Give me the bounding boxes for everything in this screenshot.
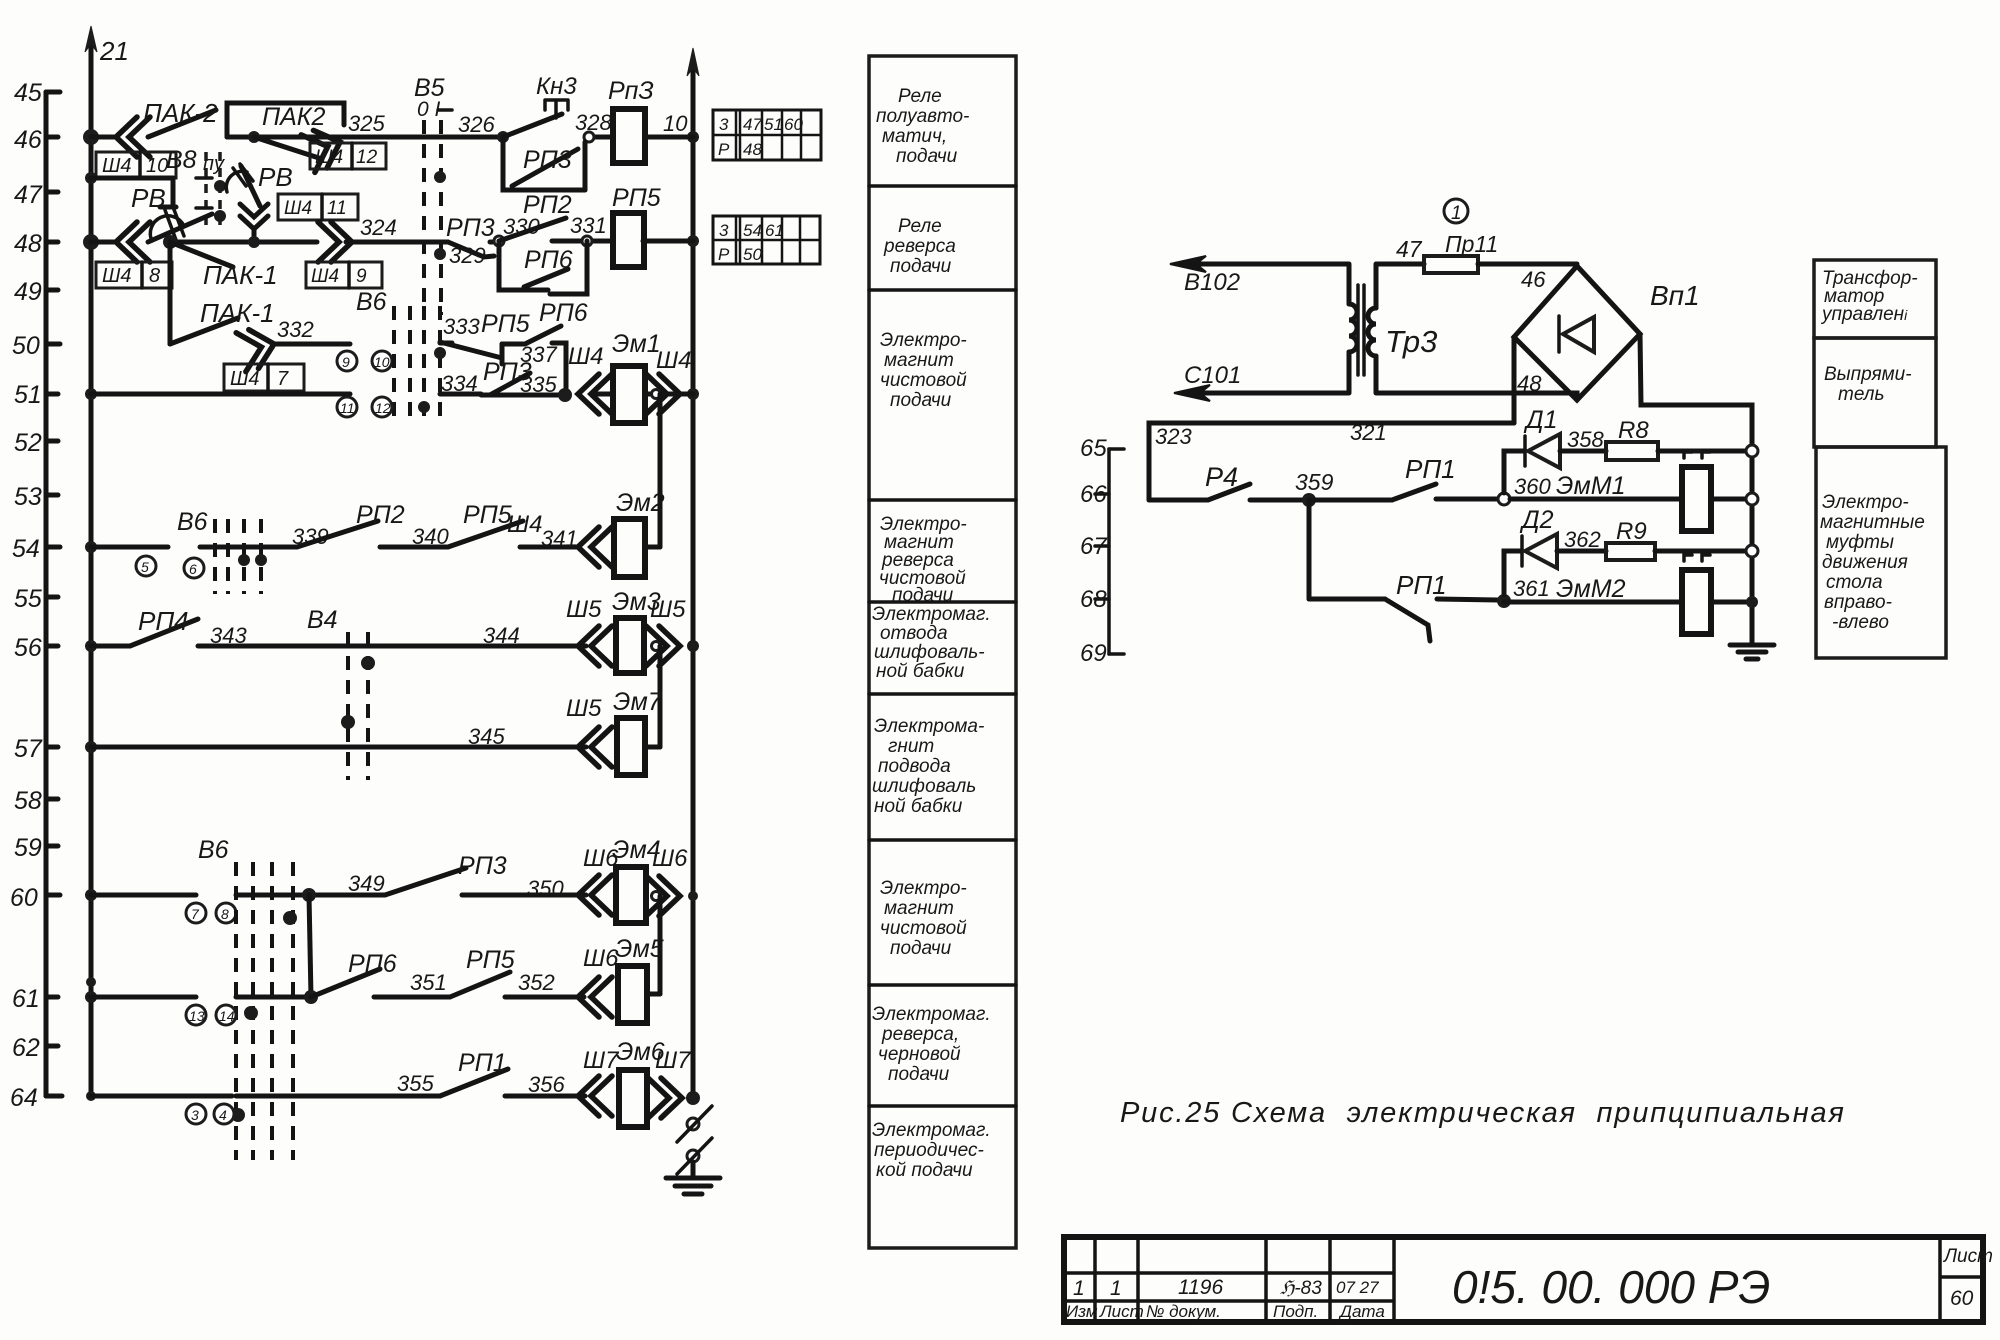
svg-text:329: 329 <box>449 243 486 268</box>
svg-text:321: 321 <box>1350 420 1387 445</box>
transformer Тр3 <box>1349 264 1437 393</box>
numbers bracket 65-69 <box>1080 435 1124 667</box>
svg-text:Реле: Реле <box>898 216 942 237</box>
svg-text:61: 61 <box>765 221 784 240</box>
svg-text:3: 3 <box>191 1107 199 1123</box>
svg-text:21: 21 <box>99 36 129 66</box>
svg-text:46: 46 <box>1521 267 1546 292</box>
time relay contact РВ upper right <box>226 162 358 242</box>
svg-text:4: 4 <box>219 1107 227 1123</box>
svg-text:Р: Р <box>718 140 730 159</box>
svg-text:шлифоваль-: шлифоваль- <box>874 642 985 663</box>
svg-text:магнит: магнит <box>884 350 954 371</box>
relay coil РП5 row48 <box>612 184 661 267</box>
svg-text:11: 11 <box>327 198 347 219</box>
svg-text:Дата: Дата <box>1338 1302 1385 1321</box>
relay contact РП4 row56 <box>91 606 198 646</box>
svg-text:реверса,: реверса, <box>881 1024 959 1045</box>
svg-text:В6: В6 <box>177 508 208 536</box>
terminal table 2 <box>713 216 820 264</box>
svg-text:1: 1 <box>1110 1277 1122 1300</box>
svg-text:60: 60 <box>10 884 38 912</box>
svg-text:47: 47 <box>743 115 762 134</box>
electromagnet coil Эм7 <box>613 688 663 775</box>
svg-text:358: 358 <box>1567 427 1604 452</box>
relay contact РП3 self-hold loop row46 <box>503 137 585 190</box>
wire row 54 <box>91 545 579 550</box>
svg-text:6: 6 <box>189 561 197 577</box>
svg-text:Ш7: Ш7 <box>655 1047 692 1074</box>
switch В6 dashed linkage row54 <box>177 508 267 594</box>
svg-text:Пр11: Пр11 <box>1445 231 1498 257</box>
svg-text:54: 54 <box>743 221 762 240</box>
switch В6 dashed linkage rows50-51 <box>356 288 446 418</box>
svg-text:С101: С101 <box>1184 362 1241 389</box>
wire Эм2 riser <box>658 394 663 547</box>
svg-text:349: 349 <box>348 871 385 896</box>
switch В6 dashed linkage rows60-64 <box>198 836 297 1160</box>
svg-text:подвода: подвода <box>878 756 951 777</box>
wire node359 down <box>1307 500 1312 599</box>
right bus junction dots <box>686 131 700 1105</box>
svg-text:12: 12 <box>375 400 391 416</box>
svg-text:10: 10 <box>374 354 390 370</box>
svg-text:48: 48 <box>14 230 42 258</box>
connector Ш7 chevron right of Эм6 <box>648 1047 692 1118</box>
svg-text:3: 3 <box>719 221 729 240</box>
svg-text:Электро-: Электро- <box>880 330 967 351</box>
svg-text:Электромаг.: Электромаг. <box>872 604 991 625</box>
svg-text:В8: В8 <box>166 146 197 174</box>
plug pins 11 12 <box>337 397 392 417</box>
svg-text:Выпрями-: Выпрями- <box>1824 364 1912 385</box>
relay contact РП3 break row48 <box>446 214 540 268</box>
svg-text:В6: В6 <box>356 288 387 316</box>
switch В8пу dashed linkage <box>166 146 226 230</box>
rectifier bridge Вп1 <box>1514 266 1700 400</box>
svg-text:343: 343 <box>210 623 247 648</box>
disconnect links below row 64 on right bus <box>677 1106 712 1174</box>
node 359 <box>1250 469 1334 507</box>
svg-text:Ш4: Ш4 <box>507 511 542 538</box>
svg-text:361: 361 <box>1513 576 1550 601</box>
svg-text:№ докум.: № докум. <box>1146 1302 1221 1321</box>
svg-text:0!5. 00. 000 РЭ: 0!5. 00. 000 РЭ <box>1452 1261 1770 1313</box>
svg-text:360: 360 <box>1514 474 1551 499</box>
svg-text:шлифоваль: шлифоваль <box>872 776 976 797</box>
svg-text:РП1: РП1 <box>458 1049 507 1077</box>
plug pins 7 8 <box>186 903 236 923</box>
svg-text:Ш4: Ш4 <box>102 265 132 287</box>
connector Ш6 chevron right of Эм4 <box>646 845 688 916</box>
svg-text:Ш6: Ш6 <box>652 845 688 872</box>
relay contact РП5 row61 <box>450 946 555 997</box>
svg-text:отвода: отвода <box>880 623 948 644</box>
svg-text:341: 341 <box>541 526 578 551</box>
switch ПАК2 loop with contact <box>227 103 386 172</box>
svg-text:РП6: РП6 <box>524 246 573 274</box>
relay contact РП3 row60 <box>348 852 564 901</box>
svg-text:59: 59 <box>14 834 42 862</box>
svg-text:11: 11 <box>340 400 355 416</box>
right return bus <box>687 48 699 1098</box>
svg-text:РП2: РП2 <box>523 191 572 219</box>
switch ПАК-1 blade row50 <box>170 298 275 344</box>
svg-text:подачи: подачи <box>896 146 958 167</box>
contact Р4 row66 <box>1149 462 1250 500</box>
svg-text:Ш7: Ш7 <box>583 1047 620 1074</box>
svg-text:подачи: подачи <box>888 1064 950 1085</box>
electromagnet coil Эм3 <box>612 588 661 673</box>
svg-text:Тр3: Тр3 <box>1385 324 1437 359</box>
svg-text:Подп.: Подп. <box>1273 1302 1318 1321</box>
svg-text:325: 325 <box>348 111 385 136</box>
svg-text:48: 48 <box>743 140 762 159</box>
wire Эм5 riser <box>658 896 663 994</box>
svg-text:гнит: гнит <box>888 736 934 757</box>
svg-text:РП6: РП6 <box>348 950 397 978</box>
connector Ш5 chevron right of Эм3 <box>646 596 686 666</box>
connector Ш6 chevron left of Эм5 <box>578 945 619 1017</box>
connector Ш4/10 chevron <box>96 117 176 178</box>
plug pins 9 10 <box>337 351 392 371</box>
svg-text:Ш4: Ш4 <box>311 266 339 287</box>
bracket 337 between rows50-51 <box>502 342 566 395</box>
svg-text:56: 56 <box>14 634 42 662</box>
svg-text:49: 49 <box>14 278 42 306</box>
svg-text:Ш5: Ш5 <box>566 596 602 623</box>
left row-number axis <box>10 79 62 1112</box>
wire row 50 <box>276 342 350 347</box>
svg-text:чистовой: чистовой <box>880 370 967 391</box>
pushbutton Кн3 <box>497 73 612 143</box>
svg-text:магнитные: магнитные <box>1820 512 1925 533</box>
plug pins 5 6 <box>136 556 204 578</box>
svg-text:РП3: РП3 <box>446 214 495 242</box>
resistor R9 <box>1606 518 1758 560</box>
svg-text:331: 331 <box>570 213 607 238</box>
svg-text:РВ: РВ <box>258 162 293 192</box>
svg-text:Электро-: Электро- <box>1822 492 1909 513</box>
svg-text:черновой: черновой <box>878 1044 961 1065</box>
svg-text:Вп1: Вп1 <box>1650 280 1700 311</box>
svg-text:Электромаг.: Электромаг. <box>872 1004 991 1025</box>
svg-text:344: 344 <box>483 623 520 648</box>
svg-text:РП5: РП5 <box>481 310 530 338</box>
svg-text:46: 46 <box>14 126 42 154</box>
connector Ш4/8 chevron <box>96 222 172 288</box>
svg-text:50: 50 <box>12 332 40 360</box>
svg-text:Д1: Д1 <box>1523 406 1558 434</box>
electromagnet coil Эм4 <box>612 836 661 923</box>
wire row 46 <box>91 135 693 140</box>
wire row 56 <box>198 623 586 648</box>
svg-text:полуавто-: полуавто- <box>876 106 969 127</box>
wire primary to С101 <box>1174 362 1348 401</box>
svg-text:ной бабки: ной бабки <box>874 796 963 817</box>
svg-text:ной бабки: ной бабки <box>876 661 965 682</box>
svg-text:Эм7: Эм7 <box>613 688 663 716</box>
svg-text:управленi: управленi <box>1820 304 1908 325</box>
svg-text:Эм5: Эм5 <box>615 935 664 963</box>
svg-text:332: 332 <box>277 317 314 342</box>
svg-text:7: 7 <box>277 368 289 390</box>
svg-text:352: 352 <box>518 970 555 995</box>
relay contact РП1 row66 <box>1309 454 1498 500</box>
svg-text:ЭмМ2: ЭмМ2 <box>1556 575 1626 603</box>
wire row 48 <box>91 241 693 242</box>
svg-text:326: 326 <box>458 112 495 137</box>
svg-text:магнит: магнит <box>884 898 954 919</box>
svg-text:Ш4: Ш4 <box>284 198 312 219</box>
svg-text:8: 8 <box>221 906 229 922</box>
electromagnet coil Эм2 <box>614 489 665 577</box>
relay contact РП2 row48 <box>494 191 607 246</box>
electromagnet coil Эм5 <box>615 935 664 1023</box>
svg-text:подачи: подачи <box>892 585 954 606</box>
svg-text:53: 53 <box>14 483 42 511</box>
switch B5 dashed linkage <box>414 74 495 315</box>
connector Ш4 chevron left of Эм1 <box>568 343 612 414</box>
svg-text:345: 345 <box>468 724 505 749</box>
svg-text:Эм1: Эм1 <box>612 330 661 358</box>
svg-text:323: 323 <box>1155 424 1192 449</box>
svg-text:66: 66 <box>1080 481 1107 508</box>
svg-text:РпЗ: РпЗ <box>608 77 654 105</box>
svg-text:12: 12 <box>356 147 378 168</box>
diode Д2 <box>1504 506 1606 595</box>
svg-text:РП3: РП3 <box>523 146 572 174</box>
svg-text:РП1: РП1 <box>1396 570 1447 600</box>
svg-text:61: 61 <box>12 985 40 1013</box>
electromagnet coil Эм6 <box>616 1038 665 1127</box>
svg-text:3: 3 <box>719 115 729 134</box>
svg-text:65: 65 <box>1080 435 1107 462</box>
svg-text:1: 1 <box>1073 1277 1085 1300</box>
electromagnet clutch ЭмМ1 <box>1510 452 1758 531</box>
svg-text:тель: тель <box>1838 384 1884 405</box>
svg-text:1196: 1196 <box>1178 1276 1223 1299</box>
svg-text:64: 64 <box>10 1084 38 1112</box>
wire bridge right to rail <box>1640 334 1752 644</box>
svg-text:R8: R8 <box>1618 417 1649 444</box>
svg-text:РВ: РВ <box>131 183 166 213</box>
svg-text:Ш4: Ш4 <box>230 368 260 390</box>
svg-text:подачи: подачи <box>890 256 952 277</box>
svg-text:стола: стола <box>1826 572 1883 593</box>
svg-text:356: 356 <box>528 1072 565 1097</box>
connector Ш5 chevron left of Эм7 <box>566 695 612 767</box>
connector Ш4 chevron left of Эм2 <box>507 511 612 567</box>
svg-text:51: 51 <box>764 115 783 134</box>
relay contact РП1 row68 break <box>1309 570 1498 641</box>
svg-text:В6: В6 <box>198 836 229 864</box>
svg-text:68: 68 <box>1080 586 1107 613</box>
svg-text:9: 9 <box>356 266 367 287</box>
svg-text:Лист: Лист <box>1099 1302 1144 1321</box>
switch ПАК-1 blade row48 <box>163 235 278 290</box>
svg-text:ЭмМ1: ЭмМ1 <box>1556 472 1626 500</box>
svg-text:334: 334 <box>441 371 478 396</box>
relay contact РП3 row51 <box>441 358 572 402</box>
svg-text:351: 351 <box>410 970 447 995</box>
ground right rail <box>1730 645 1774 659</box>
connector Ш7 chevron left of Эм6 <box>578 1047 620 1116</box>
electromagnet clutch ЭмМ2 <box>1504 555 1758 634</box>
node row61 <box>304 990 318 1004</box>
svg-text:69: 69 <box>1080 640 1107 667</box>
svg-text:Электрома-: Электрома- <box>874 716 984 737</box>
wire primary to В102 <box>1170 256 1348 296</box>
svg-text:РП1: РП1 <box>1405 454 1456 484</box>
node 361 <box>1497 576 1550 608</box>
svg-text:355: 355 <box>397 1071 434 1096</box>
wire row60-61 link <box>309 895 311 997</box>
svg-text:РП5: РП5 <box>463 501 512 529</box>
svg-text:ℌ-83: ℌ-83 <box>1280 1278 1322 1299</box>
svg-text:1: 1 <box>1451 203 1462 224</box>
svg-text:362: 362 <box>1564 527 1601 552</box>
svg-text:кой подачи: кой подачи <box>876 1160 973 1181</box>
wire Эм7 riser <box>658 646 663 747</box>
svg-text:Электро-: Электро- <box>880 878 967 899</box>
svg-text:Ш4: Ш4 <box>315 147 343 168</box>
svg-text:60: 60 <box>784 115 803 134</box>
svg-text:РП5: РП5 <box>466 946 515 974</box>
svg-text:Д2: Д2 <box>1519 506 1554 534</box>
wire bus48 to row50 <box>168 242 173 344</box>
wire 321 323 <box>1149 420 1514 500</box>
svg-text:матич,: матич, <box>882 126 947 147</box>
resistor R8 <box>1606 417 1758 460</box>
svg-text:Р4: Р4 <box>1205 462 1238 492</box>
node row48 with РВ branch <box>248 236 260 248</box>
svg-text:340: 340 <box>412 524 449 549</box>
diode Д1 <box>1504 406 1606 493</box>
svg-text:В4: В4 <box>307 606 338 634</box>
wire secondary bottom to bridge <box>1377 393 1577 400</box>
svg-text:Эм2: Эм2 <box>616 489 665 517</box>
svg-text:328: 328 <box>575 110 612 135</box>
relay contact РП6 loop row48 <box>499 241 587 294</box>
svg-text:реверса: реверса <box>883 236 956 257</box>
svg-text:Реле: Реле <box>898 86 942 107</box>
svg-text:Рис.25 Схема электрическая п: Рис.25 Схема электрическая припципиальна… <box>1120 1097 1846 1129</box>
wire stub row 47 to В8пу <box>91 178 176 207</box>
wire row 64 <box>91 1094 585 1099</box>
svg-text:чистовой: чистовой <box>880 918 967 939</box>
svg-text:РП4: РП4 <box>138 606 189 636</box>
svg-text:Ш4: Ш4 <box>656 347 691 374</box>
position mark 1 <box>1444 199 1468 224</box>
connector 332 chevron <box>224 317 314 391</box>
svg-text:335: 335 <box>520 372 557 397</box>
node row60 <box>302 888 316 902</box>
switch В4 dashed linkage rows56-57 <box>307 606 375 780</box>
svg-text:В102: В102 <box>1184 269 1240 296</box>
node 360 <box>1498 474 1551 505</box>
plug pins 3 4 <box>186 1104 234 1124</box>
svg-text:подачи: подачи <box>890 390 952 411</box>
svg-text:ПАК-1: ПАК-1 <box>200 298 275 328</box>
svg-text:45: 45 <box>14 79 42 107</box>
svg-text:Кн3: Кн3 <box>536 73 577 100</box>
svg-text:муфты: муфты <box>1826 532 1894 553</box>
svg-text:Ш5: Ш5 <box>566 695 602 722</box>
svg-text:9: 9 <box>342 354 350 370</box>
svg-text:350: 350 <box>527 876 564 901</box>
svg-text:07 27: 07 27 <box>1336 1278 1379 1297</box>
relay coil РпЗ <box>608 77 688 163</box>
svg-text:57: 57 <box>14 735 43 763</box>
svg-text:60: 60 <box>1950 1287 1974 1310</box>
relay contact РП5 row50 <box>440 310 530 358</box>
svg-text:подачи: подачи <box>890 938 952 959</box>
svg-text:Ш4: Ш4 <box>568 343 603 370</box>
connector Ш5 chevron left of Эм3 <box>566 596 612 666</box>
svg-text:Ш4: Ш4 <box>102 155 132 177</box>
svg-text:ПАК2: ПАК2 <box>262 103 326 131</box>
svg-text:10: 10 <box>146 155 168 177</box>
svg-text:47: 47 <box>14 181 43 209</box>
svg-text:67: 67 <box>1080 533 1108 560</box>
svg-text:-влево: -влево <box>1832 612 1889 633</box>
svg-text:Изм: Изм <box>1066 1302 1098 1321</box>
svg-text:РП2: РП2 <box>356 501 405 529</box>
svg-text:Электромаг.: Электромаг. <box>872 1120 991 1141</box>
svg-text:ПАК-2: ПАК-2 <box>143 98 218 128</box>
svg-text:54: 54 <box>12 535 40 563</box>
svg-text:8: 8 <box>149 265 160 287</box>
wire row 61 <box>91 995 584 1000</box>
svg-text:Ш5: Ш5 <box>650 596 686 623</box>
wire bridge left down <box>1512 337 1517 423</box>
svg-text:ПАК-1: ПАК-1 <box>203 260 278 290</box>
svg-text:51: 51 <box>14 381 42 409</box>
switch ПАК-2 blade <box>143 98 218 137</box>
relay contact РП1 row64 <box>397 1049 565 1097</box>
wire row 60 <box>91 893 586 898</box>
svg-text:5: 5 <box>141 559 149 575</box>
svg-text:55: 55 <box>14 585 42 613</box>
svg-text:Лист: Лист <box>1942 1246 1993 1267</box>
right description boxes <box>1814 260 1946 658</box>
wire row50 right segment <box>440 341 452 346</box>
svg-text:47: 47 <box>1396 236 1423 262</box>
svg-text:движения: движения <box>1822 552 1908 573</box>
wire row 51 <box>91 392 693 397</box>
svg-text:Р: Р <box>718 245 730 264</box>
relay contact РП2 row54 <box>292 501 405 549</box>
connector 324 chevron <box>306 215 397 288</box>
svg-text:359: 359 <box>1295 469 1334 495</box>
relay contact РП6 row50 <box>525 299 588 344</box>
ground at bottom of right bus <box>666 1162 720 1194</box>
svg-text:14: 14 <box>219 1008 235 1024</box>
plug pins 13 14 <box>186 1005 236 1025</box>
connector Ш4 chevron right of Эм1 <box>646 347 691 414</box>
fuse Пр11 <box>1377 231 1577 273</box>
svg-text:10: 10 <box>663 111 688 136</box>
svg-text:7: 7 <box>191 906 200 922</box>
relay contact РП6 row61 <box>311 950 447 997</box>
svg-text:13: 13 <box>189 1008 205 1024</box>
title block <box>1064 1237 1993 1322</box>
svg-text:333: 333 <box>443 314 480 339</box>
svg-text:R9: R9 <box>1616 518 1647 545</box>
bus junction dots <box>83 129 99 1101</box>
svg-text:52: 52 <box>14 429 42 457</box>
